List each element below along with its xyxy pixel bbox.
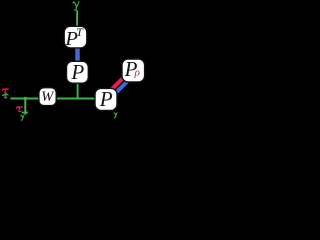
- op box P_rho: [122, 59, 145, 82]
- op box W: [39, 88, 56, 106]
- wire dangling leg at x=25: [24, 98, 26, 115]
- wire blue diagonal to P_rho: [113, 79, 129, 95]
- wire from P down to horizontal rail: [77, 81, 79, 99]
- node gamma label bottom-right green: [114, 113, 117, 118]
- wire from gamma to PT box: [76, 10, 78, 28]
- op box P middle: [67, 61, 89, 83]
- wire horizontal rail: [10, 98, 96, 100]
- wire junction dot: [24, 97, 27, 100]
- svg-text:ρ: ρ: [134, 66, 140, 78]
- op box PT: [64, 26, 87, 48]
- op box P bottom: [95, 88, 117, 110]
- node tau label bottom red: [16, 107, 22, 112]
- node gamma label bottom: [21, 115, 24, 120]
- wire blue double bond between PT and P: [75, 46, 80, 63]
- node tau label left red: [2, 89, 8, 94]
- svg-text:P: P: [99, 87, 113, 111]
- node gamma label: [73, 2, 79, 11]
- wire red diagonal to P_rho: [110, 76, 126, 92]
- node tau label left: [3, 95, 9, 98]
- svg-text:W: W: [41, 89, 55, 105]
- wire tick across leg: [22, 112, 28, 114]
- svg-text:P: P: [70, 60, 84, 84]
